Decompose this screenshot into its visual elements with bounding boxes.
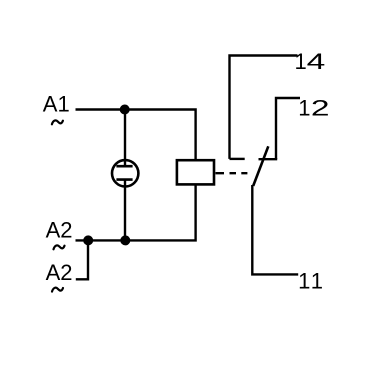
wire lamp bottom lead (124, 180, 126, 241)
relay coil K1 (177, 160, 214, 184)
AC tilde under A1 (52, 120, 63, 124)
svg-text:A2: A2 (46, 217, 73, 242)
svg-text:1: 1 (295, 49, 307, 74)
contact 12 fixed tick (259, 158, 278, 160)
svg-text:11: 11 (298, 268, 325, 293)
svg-text:A1: A1 (43, 91, 70, 116)
wire A2 horizontal with coil bottom lead (76, 185, 196, 241)
svg-text:2: 2 (311, 96, 330, 121)
svg-text:A2: A2 (46, 260, 73, 285)
wire terminal 12 lead (276, 98, 300, 159)
lamp electrode top bar (116, 165, 132, 168)
wire terminal 14 lead (230, 56, 298, 159)
neon lamp E1 circle (112, 160, 138, 186)
wire terminal 11 lead (252, 185, 298, 274)
wire lamp top lead (124, 110, 126, 167)
switch moving arm (253, 146, 268, 186)
wire A1 horizontal to coil branch (76, 110, 196, 160)
contact 14 fixed tick (230, 158, 245, 160)
wire second A2 branch (76, 240, 88, 279)
dashed actuation link (216, 172, 248, 174)
AC tilde under A2 (54, 245, 65, 249)
AC tilde under lower A2 (52, 288, 63, 292)
node junction A2 left (83, 235, 93, 245)
svg-text:1: 1 (298, 96, 310, 121)
lamp electrode bottom bar (116, 178, 132, 181)
svg-text:4: 4 (307, 49, 326, 74)
node junction on A1 wire (120, 105, 130, 115)
node junction lamp-A2 (120, 235, 130, 245)
